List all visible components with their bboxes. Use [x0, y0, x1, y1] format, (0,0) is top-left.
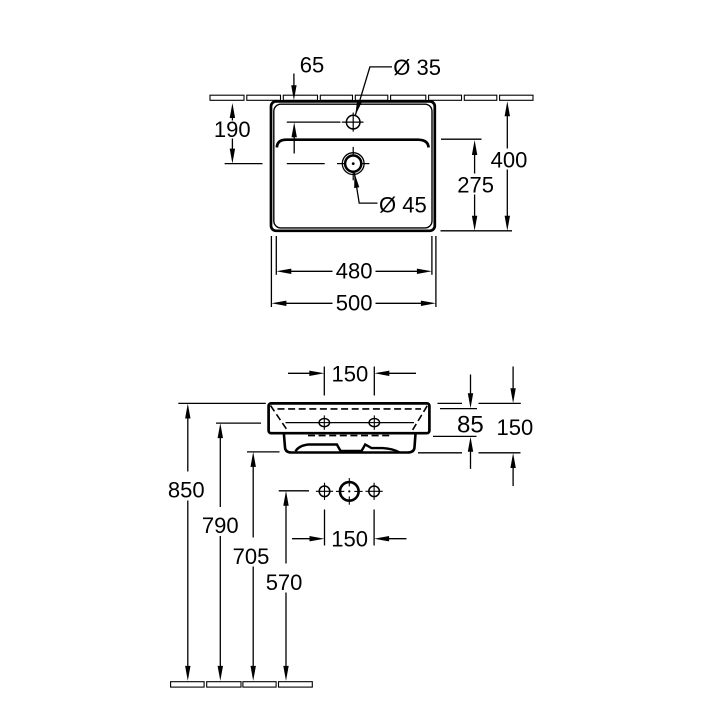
svg-text:500: 500: [336, 290, 373, 315]
label 790: [202, 513, 239, 538]
svg-text:705: 705: [233, 544, 270, 569]
svg-text:850: 850: [168, 478, 205, 503]
extension lines for top 150 (fixing holes): [324, 367, 374, 396]
extension line at drain level (dim 190): [225, 163, 325, 165]
extension line at fixing hole height (dim 790): [216, 422, 261, 424]
left fixing hole: [317, 415, 332, 429]
tap hole circle (Ø35): [342, 113, 364, 132]
dimension 190 (rear edge to drain): [230, 103, 235, 164]
svg-text:150: 150: [331, 527, 368, 552]
label 480: [336, 259, 373, 284]
svg-text:570: 570: [266, 570, 303, 595]
drain outlet (front view): [336, 478, 363, 505]
label Ø45: [379, 193, 427, 218]
label 850: [168, 478, 205, 503]
washbasin outer outline (top view): [271, 101, 435, 230]
label 500: [336, 290, 373, 315]
leader line for Ø35: [355, 67, 392, 115]
floor hatch: [171, 682, 313, 687]
extension line at shelf edge level (dim 275): [441, 138, 482, 140]
label 400: [491, 147, 528, 172]
label 150 right: [497, 415, 534, 440]
fixing hole centre line: [286, 422, 415, 424]
dimension 500 (overall width): [271, 301, 436, 306]
washbasin body outline (front view): [269, 403, 430, 433]
leader line for Ø45: [354, 173, 377, 203]
svg-text:400: 400: [491, 147, 528, 172]
svg-text:65: 65: [300, 53, 324, 78]
label 190: [214, 117, 251, 142]
right wall hole: [366, 483, 383, 500]
label 150 top: [332, 361, 369, 386]
underside mounting profile (outer): [284, 434, 416, 453]
extension line at tap hole level (dim 65): [287, 121, 341, 123]
svg-text:480: 480: [336, 259, 373, 284]
dimension 480 (inner width): [276, 269, 432, 274]
washbasin inner rim line (top view): [274, 104, 432, 228]
extension line at drain height (dim 570): [279, 490, 309, 492]
label 65: [300, 53, 324, 78]
dimension 85 (body height): [468, 375, 473, 469]
extension line at rim height (dim 850): [178, 402, 265, 404]
label Ø35: [393, 55, 441, 80]
dimension 150 (wall hole spacing, bottom): [292, 536, 407, 541]
dimension 570 (drain height): [283, 491, 288, 681]
underside mounting profile (inner): [296, 445, 400, 453]
svg-text:85: 85: [457, 412, 484, 439]
extension lines for right 150: [418, 403, 521, 452]
svg-text:Ø 45: Ø 45: [379, 193, 427, 218]
hidden bowl contour (dashed): [271, 406, 428, 436]
label 275: [457, 173, 494, 198]
extension lines below basin (dims 480/500): [271, 236, 436, 307]
extension lines for bottom 150: [325, 510, 375, 546]
svg-text:Ø 35: Ø 35: [393, 55, 441, 80]
svg-text:150: 150: [332, 361, 369, 386]
wall hatch (top view mounting wall): [210, 95, 533, 100]
dimension 275 (front edge to shelf): [472, 140, 477, 231]
right fixing hole: [367, 415, 382, 429]
svg-text:790: 790: [202, 513, 239, 538]
extension line at basin front edge (right): [441, 230, 513, 232]
label 705: [233, 544, 270, 569]
dimension 65 (rear edge to tap hole): [291, 74, 297, 154]
label 570: [266, 570, 303, 595]
dimension 790 (fixing hole height): [218, 423, 223, 681]
dimension 705 (underside height): [251, 452, 256, 681]
svg-text:150: 150: [497, 415, 534, 440]
label 150 bottom: [331, 527, 368, 552]
dimension 400 (overall depth): [505, 101, 510, 231]
dimension 150 (fixing hole spacing, top): [288, 371, 416, 376]
dimension 850 (rim height): [185, 404, 190, 681]
left wall hole: [316, 483, 333, 500]
extension lines for dim 85: [433, 409, 477, 437]
extension line at underside height (dim 705): [247, 451, 280, 453]
label 85: [457, 412, 484, 439]
drain hole (Ø45): [337, 147, 369, 180]
svg-text:190: 190: [214, 117, 251, 142]
dimension 150 (total height, right): [510, 367, 515, 487]
svg-text:275: 275: [457, 173, 494, 198]
basin rear shelf edge curve: [277, 140, 429, 148]
